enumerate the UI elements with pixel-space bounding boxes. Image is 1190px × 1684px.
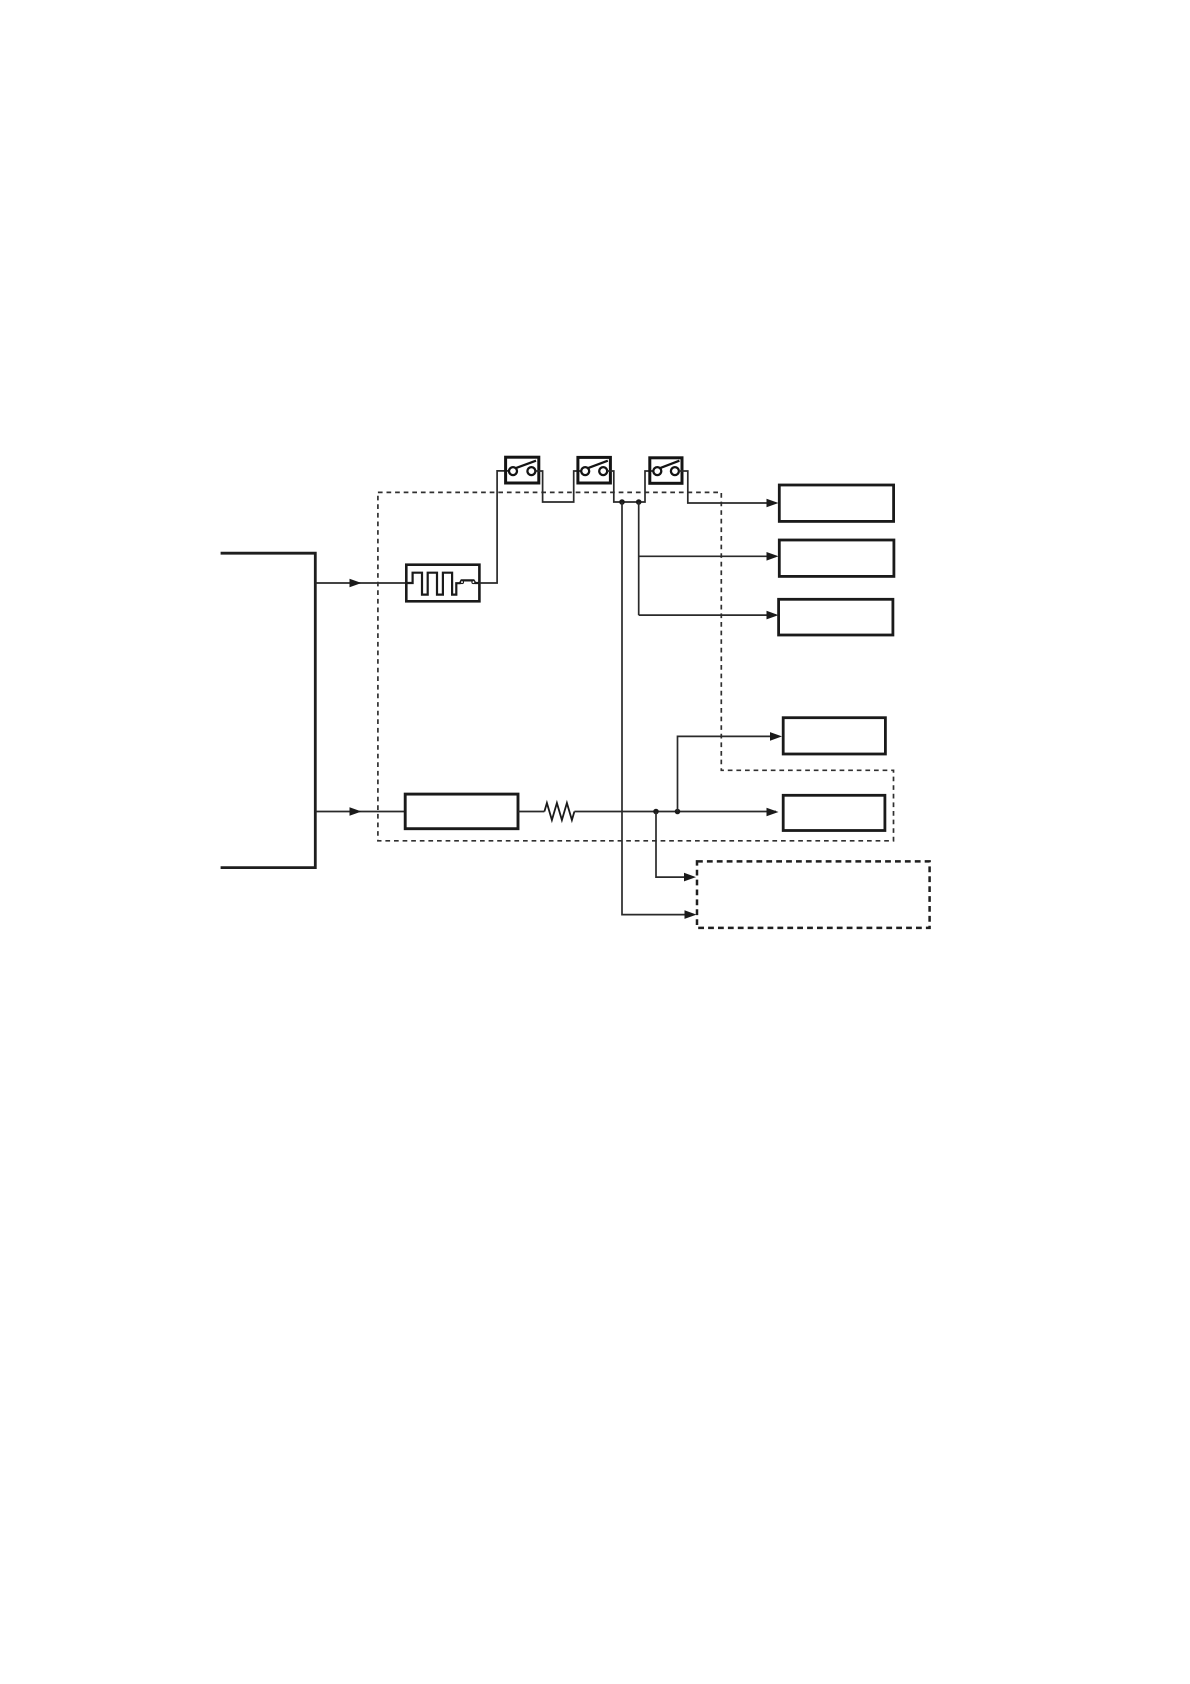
wire: tap up to box 4 [678,736,780,811]
arrowhead into box 2 [767,552,779,561]
arrowhead into box 1 [767,499,779,508]
output box 5 [783,795,885,830]
wire: S1 to S2 [535,471,581,502]
arrowhead into bottom dashed unit (lower) [685,910,697,919]
switch S2 right contact [599,467,607,475]
comb filter meander element [406,573,479,595]
junction node on main horizontal (tap up to box 4) [675,809,681,815]
wire: S2 to S3 [607,471,653,502]
switch S1 left contact [509,467,517,475]
junction node on S2-S3 wire (tap to boxes 2 and 3) [636,499,642,505]
switch S3 right contact [671,467,679,475]
arrowhead into box 5 [767,808,779,817]
filter trimmer contact left [461,581,464,584]
output box 2 [779,540,894,576]
wire: V2 branch to box 2 [639,555,776,557]
switch S2 arm [587,461,607,469]
output box 3 [779,599,893,635]
arrowhead into box 4 [770,732,782,741]
output box 4 [783,718,885,754]
switch S3 arm [660,461,680,469]
comb filter FL (box) [406,565,479,602]
wire: V2 end to box 3 [639,614,776,616]
wire: lower block to resistor [518,811,544,813]
arrowhead on lower block input wire [350,807,362,816]
main unit box (open left side) [221,553,316,867]
switch S1 box [506,457,539,483]
filter trimmer contact right [472,581,475,584]
wire: resistor to box 5 (main horizontal) [574,811,776,813]
resistor R (zigzag) [544,803,574,820]
switch S1 right contact [527,467,535,475]
junction node on main horizontal (tap down to bottom dashed unit upper arrow) [653,809,659,815]
lower block (oscillator) box [405,794,518,829]
wire: main unit to filter input [315,582,406,584]
arrowhead on filter input wire [350,579,362,588]
arrowhead into box 3 [767,611,779,620]
switch S2 box [578,457,611,483]
arrowhead into bottom dashed unit (upper) [684,873,696,882]
bottom dashed unit box [697,861,930,928]
switch S3 left contact [653,467,661,475]
switch S2 left contact [581,467,589,475]
wire: tap down to bottom dashed unit (upper) [656,812,694,878]
dashed enclosure (L-shaped board outline) [378,492,894,840]
output box 1 [779,485,893,521]
wire: filter output up to switch S1 [479,471,509,583]
long vertical wire V1 (S2-S3 tap down to bottom dashed unit) [622,502,694,915]
wire: S3 output to box 1 [679,471,776,503]
switch S3 box [650,458,682,484]
switch S1 arm [515,461,536,469]
wire: main unit to lower block input [315,811,405,813]
vertical wire V2 (S2-S3 tap down to boxes 2 and 3) [638,502,640,615]
junction node on S2-S3 wire (tap to bottom dashed unit lower arrow) [619,499,625,505]
